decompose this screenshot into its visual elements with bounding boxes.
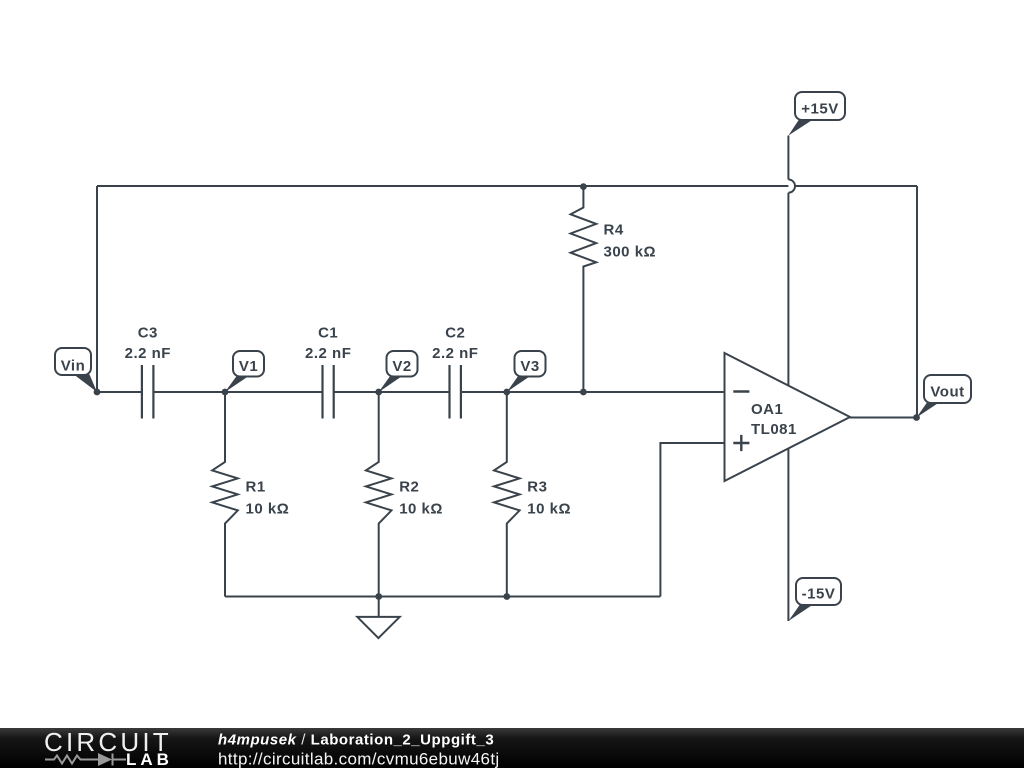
svg-text:h4mpusek / Laboration_2_Uppgif: h4mpusek / Laboration_2_Uppgift_3 [218,732,494,749]
wire V3 to op-amp inverting input [507,391,725,393]
svg-text:LAB: LAB [126,750,173,768]
svg-text:Vin: Vin [61,358,86,375]
node V3 flag [507,351,546,392]
resistor R1 labels [246,479,290,518]
node R4-rail junction dot [580,183,587,190]
wire noninverting input [660,443,724,597]
svg-text:2.2 nF: 2.2 nF [432,345,478,362]
node Vin flag [55,348,97,392]
svg-text:C1: C1 [318,325,338,342]
node V2 flag [379,351,418,392]
node Vout dot [913,414,920,421]
wire right vertical top rail to Vout [916,186,918,418]
resistor R4 labels [604,222,657,261]
svg-text:http://circuitlab.com/cvmu6ebu: http://circuitlab.com/cvmu6ebuw46tj [218,750,500,768]
footer bar [0,728,1024,768]
resistor R1 [212,392,238,597]
wire bottom ground rail [225,596,660,598]
svg-text:10 kΩ: 10 kΩ [246,501,290,518]
svg-text:+15V: +15V [801,101,838,118]
net +15V flag [788,92,845,136]
node Vin dot [94,389,101,396]
node Vout flag [917,375,972,418]
resistor R3 [494,392,520,597]
svg-text:V3: V3 [520,358,539,375]
svg-text:Vout: Vout [930,384,964,401]
logo resistor-diode symbol [45,754,126,766]
node R3-ground junction dot [503,593,510,600]
svg-text:TL081: TL081 [751,421,797,438]
svg-text:R2: R2 [399,479,419,496]
wire +15V supply upper [787,136,789,180]
wire C3 to V1 [153,391,225,393]
svg-text:2.2 nF: 2.2 nF [125,345,171,362]
svg-text:R1: R1 [246,479,266,496]
ground [357,597,399,639]
svg-text:V2: V2 [392,358,411,375]
net -15V flag [788,578,841,621]
wire top rail left of hop [97,185,788,187]
wire top rail right of hop [796,185,918,187]
svg-text:10 kΩ: 10 kΩ [527,501,571,518]
node R2-ground junction dot [375,593,382,600]
capacitor C3 labels [125,325,171,362]
svg-text:10 kΩ: 10 kΩ [399,501,443,518]
svg-text:300 kΩ: 300 kΩ [604,244,657,261]
wire V1 to C1 [225,391,323,393]
svg-text:R3: R3 [527,479,547,496]
resistor R2 labels [399,479,443,518]
capacitor C2 labels [432,325,478,362]
wire C2 to V3 [461,391,507,393]
svg-text:C3: C3 [138,325,158,342]
wire op-amp output to Vout [850,417,917,419]
wire V2 to C2 [379,391,450,393]
wire +15V to op-amp V+ pin [787,193,789,386]
capacitor C1 [323,365,334,419]
op-amp OA1 [725,353,851,481]
node V3 dot [503,389,510,396]
capacitor C2 [450,365,461,419]
svg-text:R4: R4 [604,222,624,239]
svg-text:V1: V1 [239,358,258,375]
capacitor C1 labels [305,325,351,362]
svg-text:OA1: OA1 [751,401,783,418]
svg-text:C2: C2 [445,325,465,342]
svg-text:-15V: -15V [802,586,836,603]
wire hop over top rail [788,180,795,193]
node V1 dot [222,389,229,396]
wire left vertical Vin to top rail [96,186,98,392]
op-amp OA1 labels [751,401,797,438]
resistor R3 labels [527,479,571,518]
wire C1 to V2 [334,391,379,393]
resistor R2 [366,392,392,597]
op-amp plus sign [733,435,749,451]
node V2 dot [375,389,382,396]
node R4-main junction dot [580,389,587,396]
capacitor C3 [142,365,154,419]
svg-text:2.2 nF: 2.2 nF [305,345,351,362]
node V1 flag [225,351,264,392]
op-amp minus sign [733,390,749,392]
wire op-amp V- pin to -15V [787,448,789,621]
resistor R4 [571,187,597,392]
wire main Vin to C3 [97,391,142,393]
